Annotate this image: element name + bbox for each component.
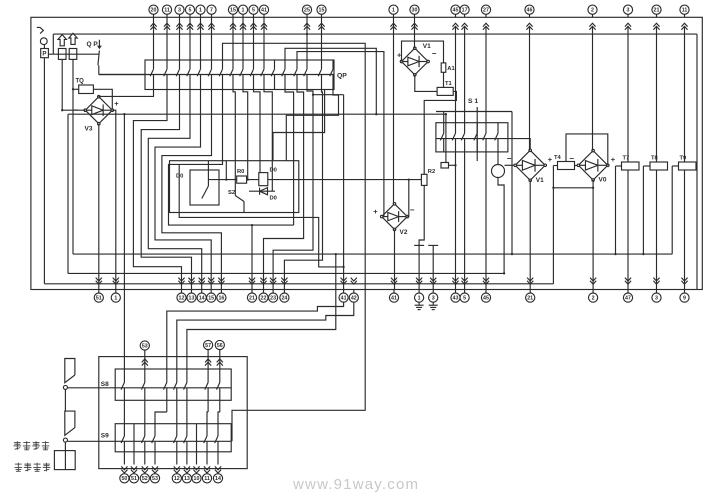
wire bus A along top (53, 33, 697, 35)
S9 contact 7 (196, 424, 198, 465)
top terminal 7 at x=211.5 (207, 5, 216, 14)
svg-text:A1: A1 (447, 66, 455, 72)
wire top terminal 2 through V0 to bottom terminal (592, 27, 594, 150)
svg-text:30: 30 (412, 8, 418, 14)
svg-text:11: 11 (204, 476, 210, 482)
wire top terminal to V1 top vertex (414, 17, 416, 48)
S1 contact 4 (476, 123, 478, 134)
top terminal 17 at x=464.6 (460, 5, 469, 14)
rectifier bridge V2 (382, 204, 408, 230)
wire QP pin drop to S2 (233, 90, 235, 196)
wire terminal 17 through S1 (464, 27, 466, 123)
disconnect switch handle (37, 27, 44, 33)
svg-text:P: P (42, 51, 46, 58)
svg-text:Q P: Q P (87, 41, 99, 48)
wire terminal to QP pin (211, 17, 213, 60)
wire right vertical v3 to terminal 23 (273, 90, 313, 290)
wire S8 drop 207 (207, 412, 208, 424)
top terminal 21 at x=656.5 (652, 5, 661, 14)
S8 contact 2 (144, 357, 146, 383)
QP aux contact 15 (306, 60, 308, 69)
wire right vertical v1 (QP pin to ring6 arm) (285, 90, 294, 226)
QP aux contact 4 (189, 60, 191, 69)
wire terminal to QP pin (232, 17, 234, 60)
QP aux contact 6 (211, 60, 213, 69)
bus N horizontal (68, 272, 504, 274)
S9 contact 5 (176, 424, 178, 436)
rectifier bridge V0 (578, 151, 607, 180)
bottom terminal 43 at x=455.5 (452, 278, 458, 285)
top terminal 15 at x=233 (228, 5, 237, 14)
relay coil D0 (259, 173, 268, 186)
wire bus Y right drop to R2b (445, 114, 447, 162)
bottom terminal 14 at x=201.7 (199, 278, 205, 285)
svg-text:27: 27 (483, 8, 489, 14)
maze ring 4 (QP pin to bottom terminal) (155, 90, 211, 290)
wire S8 drop 218 (218, 412, 220, 424)
wire P to fuses (48, 53, 98, 55)
svg-text:1: 1 (392, 8, 395, 14)
top terminal 30 at x=414.5 (410, 5, 419, 14)
svg-text:T4: T4 (554, 155, 562, 161)
svg-text:3: 3 (178, 8, 181, 14)
svg-text:1: 1 (199, 8, 202, 14)
fuse box 1 (58, 49, 66, 60)
wire V1 bottom vertex to terminal (529, 180, 531, 289)
svg-text:45: 45 (483, 296, 489, 302)
outer border frame (31, 17, 702, 289)
top terminal 27 at x=486 (481, 5, 490, 14)
svg-text:S 1: S 1 (468, 98, 478, 105)
wire terminal 27 through S1 (485, 27, 487, 123)
wire V0 right vertex loop to T4 top (566, 134, 608, 165)
wire top terminal 46 to V1 top vertex (529, 27, 531, 150)
svg-text:V1: V1 (423, 43, 431, 50)
S8 contact 6 (207, 357, 209, 383)
bottom terminal 42 at x=353.8 (351, 278, 357, 285)
QP aux contact 8 (232, 60, 234, 69)
svg-text:1: 1 (418, 296, 421, 302)
bottom terminal 3 at x=433.2 (430, 278, 436, 285)
terminal 53 above S8 (140, 341, 149, 350)
wire S8 drop 176 (176, 412, 178, 424)
svg-text:53: 53 (152, 476, 158, 482)
svg-text:1: 1 (242, 8, 245, 14)
svg-text:R2: R2 (428, 169, 435, 175)
svg-text:10: 10 (194, 476, 200, 482)
svg-text:41: 41 (341, 296, 347, 302)
bottom terminal 2 at x=593.1 (590, 278, 596, 285)
wire terminal through T7 (627, 27, 629, 162)
wire S9 entry from link A (232, 410, 247, 441)
svg-text:V0: V0 (599, 177, 607, 184)
wire terminal to QP pin (263, 17, 265, 60)
wire S8 common (67, 387, 231, 389)
S8S9 bottom terminal 51 (131, 466, 137, 473)
top terminal 15 at x=321.5 (317, 5, 326, 14)
svg-text:1: 1 (114, 296, 117, 302)
wire V1 left vertex loop to A1 (402, 41, 444, 63)
maze ring 1 (QP pin to bottom terminal) (133, 90, 181, 290)
top terminal 25 at x=307 (302, 5, 311, 14)
svg-text:S2: S2 (228, 190, 235, 196)
bottom terminal 21 at x=530.2 (527, 278, 533, 285)
switch block S8/S9 outline (99, 357, 247, 469)
QP aux contact 5 (200, 60, 202, 69)
svg-text:+: + (611, 155, 616, 164)
wire flag1 to flag2 (64, 389, 66, 411)
wire T1 right to R2 top (424, 91, 456, 174)
bottom terminal 12 at x=181.5 (178, 278, 184, 285)
wire QP contact to QP aux block (99, 74, 145, 76)
wire T4 left pin U-loop to V0 bottom and bus P (553, 165, 557, 167)
bottom terminal 23 at x=273.1 (270, 278, 276, 285)
svg-text:21: 21 (527, 296, 533, 302)
S8 contact 1 (123, 357, 125, 383)
wire terminal to QP pin (189, 17, 191, 60)
wire V3 left vertex to fuse1 drop (62, 109, 85, 111)
svg-text:2: 2 (591, 8, 594, 14)
wire right vertical v4 to terminal 24 (284, 90, 322, 290)
svg-text:+: + (373, 207, 378, 216)
S9 row box (115, 424, 231, 452)
breaker aux contact block QP (145, 60, 334, 90)
svg-text:5: 5 (252, 8, 255, 14)
position box (54, 451, 75, 470)
wire QP pin drop to relay coil D0 (254, 90, 261, 173)
wire T7 left pin to bus M (616, 165, 622, 167)
svg-text:42: 42 (351, 296, 357, 302)
QP aux contact 3 (179, 60, 181, 69)
wire top terminal to V2 and terminal 41b (393, 17, 395, 204)
QP aux contact 17 (332, 60, 334, 69)
svg-text:51: 51 (131, 476, 137, 482)
wire V3 right vertex to terminal 1 drop (112, 110, 116, 289)
svg-text:13: 13 (184, 476, 190, 482)
svg-text:D0: D0 (270, 195, 277, 201)
QP aux contact 11 (263, 60, 265, 69)
svg-text:+: + (114, 99, 119, 108)
top terminal 5 at x=190 (185, 5, 194, 14)
S1 contact 5 (485, 123, 487, 134)
maze ring 2 (QP pin to bottom terminal) (141, 90, 191, 290)
top terminal 41 at x=264 (259, 5, 268, 14)
bottom terminal 22 at x=263.5 (260, 278, 266, 285)
wire QP pin link B (285, 48, 376, 114)
svg-text:+: + (548, 155, 553, 164)
wire terminal to QP pin (242, 17, 244, 60)
bottom terminal 41 at x=394 (391, 278, 397, 285)
wire terminal to QP pin (200, 17, 202, 60)
top terminal 5 at x=253.5 (249, 5, 258, 14)
relay D0 contact box (190, 170, 219, 205)
bottom terminal 41 at x=343.6 (341, 278, 347, 285)
wire lamp to V1 bridge left vertex (505, 164, 516, 166)
position indicator flag 2 (65, 411, 75, 435)
wire maze to S8 long vertical (123, 114, 125, 356)
S9 contact 8 (206, 424, 208, 436)
wire terminal to QP pin (166, 17, 168, 60)
top terminal 3 at x=179.5 (175, 5, 184, 14)
wire terminal to QP pin (321, 17, 323, 60)
wire R2b to S1 drop (449, 164, 456, 166)
top terminal 45 at x=455.5 (451, 5, 460, 14)
wire TQ right to V3 right vertex (93, 89, 112, 110)
wire QP pin to S8 block (long link) (223, 43, 366, 410)
svg-text:V3: V3 (85, 126, 93, 133)
maze right ring B (273, 90, 325, 161)
S9 contact 9 (217, 424, 219, 436)
wire V1 bottom vertex to T1 left (415, 75, 437, 92)
S8S9 bottom terminal 10 (193, 466, 199, 473)
bottom terminal 51 at x=98.8 (96, 278, 102, 285)
bus P horizontal (44, 283, 553, 285)
top terminal 20 at x=153.5 (149, 5, 158, 14)
svg-text:15: 15 (208, 296, 214, 302)
svg-text:QP: QP (337, 73, 347, 80)
svg-text:11: 11 (682, 8, 688, 14)
svg-text:7: 7 (210, 8, 213, 14)
S1 contact 3 (464, 123, 466, 134)
wire S8 drop 186 (186, 412, 188, 424)
S9 contact 6 (186, 424, 188, 436)
resistor A1 (441, 63, 446, 72)
svg-text:9: 9 (683, 296, 686, 302)
svg-text:23: 23 (270, 296, 276, 302)
stub bar 2 and wire (428, 244, 438, 246)
QP aux contact 14 (296, 60, 298, 69)
svg-text:−: − (507, 154, 512, 163)
position indicator flag 1 (65, 359, 75, 383)
S1 top bus (436, 111, 512, 113)
svg-text:5: 5 (463, 296, 466, 302)
QP aux contact 10 (253, 60, 255, 69)
QP aux contact 12 (274, 60, 276, 69)
svg-text:−: − (410, 206, 415, 215)
S1 contact 6 (497, 123, 499, 134)
svg-text:17: 17 (462, 8, 468, 14)
wire terminal to QP pin (253, 17, 255, 60)
svg-text:T1: T1 (445, 81, 453, 87)
wire right vertical v2 to terminal 22 (264, 90, 304, 290)
svg-text:−: − (432, 49, 437, 58)
wire S8 drop 145 (144, 412, 146, 424)
QP aux contact 16 (321, 60, 323, 69)
svg-text:50: 50 (121, 476, 127, 482)
S9 contact 4 (154, 424, 156, 436)
terminal 57 above S8 (204, 340, 213, 349)
svg-text:14: 14 (199, 296, 205, 302)
wire R2 bottom to ground stub 1 (419, 185, 424, 289)
svg-text:13: 13 (189, 296, 195, 302)
wire S8 jog to 155 (155, 412, 167, 424)
wire terminal to QP pin (179, 17, 181, 60)
svg-text:TQ: TQ (76, 79, 85, 85)
QP aux contact 1 (153, 60, 155, 69)
transformer T1 (437, 87, 453, 95)
wire terminal to QP pin (153, 17, 155, 60)
wire V3 bottom vertex to terminal 51 (98, 124, 100, 290)
wire QP pin drop to diode D0 (264, 90, 272, 192)
wire relay aux vertical (225, 161, 227, 180)
maze ring 6 with long bottom arm (169, 90, 294, 226)
S8S9 bottom terminal 12 (174, 466, 180, 473)
S1 contact 1 (443, 123, 445, 134)
svg-text:57: 57 (205, 343, 211, 349)
wire P drop to bus P (43, 58, 45, 284)
S9 contact 1 (123, 424, 125, 436)
S8 contact 4 (176, 357, 178, 383)
wire terminal through T9 (684, 27, 686, 162)
QP aux contact 9 (242, 60, 244, 69)
wire S8 drop 124 (123, 412, 125, 424)
svg-text:12: 12 (174, 476, 180, 482)
wire S2 feed arm to terminal 41 (179, 164, 343, 267)
wire T4 right pin to V0 left vertex (575, 165, 579, 167)
wire QP pin link C to V2 (297, 52, 384, 217)
QP aux contact 7 (222, 60, 224, 69)
wire flag2 to position box (64, 442, 66, 451)
wire V2 right vertex to bus C dot (407, 180, 409, 217)
S8S9 bottom terminal 53 (152, 466, 158, 473)
svg-text:16: 16 (218, 296, 224, 302)
wire QP pin drop to bus C (243, 90, 248, 180)
svg-text:21: 21 (249, 296, 255, 302)
svg-text:46: 46 (527, 8, 533, 14)
rectifier bridge V1 (top) (402, 48, 429, 75)
bus M horizontal (73, 253, 672, 255)
svg-text:S8: S8 (101, 381, 109, 388)
S8 contact 3 (166, 357, 168, 383)
top terminal 46 at x=529.5 (525, 5, 534, 14)
close-command arrow (he) (58, 35, 66, 46)
svg-text:T9: T9 (680, 156, 688, 162)
maze ring 3 (QP pin to bottom terminal) (148, 90, 201, 290)
svg-text:V1: V1 (536, 177, 544, 184)
svg-text:43: 43 (453, 296, 459, 302)
terminal 56 above S8 (215, 340, 224, 349)
ground symbol at terminal 1 (418, 302, 420, 305)
svg-text:22: 22 (261, 296, 267, 302)
signal lamp (497, 152, 499, 165)
S8S9 bottom terminal 13 (184, 466, 190, 473)
top terminal 1 at x=243 (238, 5, 247, 14)
relay D0 contact (207, 161, 209, 186)
svg-text:41: 41 (261, 8, 267, 14)
S9 contact 3 (144, 424, 146, 436)
ground symbol at terminal 3 (432, 302, 434, 305)
bottom terminal 16 at x=221.4 (218, 278, 224, 285)
svg-text:5: 5 (189, 8, 192, 14)
svg-text:S9: S9 (101, 432, 109, 439)
bottom terminal 9 at x=684.5 (681, 278, 687, 285)
svg-text:D0: D0 (176, 174, 183, 180)
svg-text:24: 24 (281, 296, 287, 302)
wire terminal 41 to S8 contact (W1) (167, 302, 344, 356)
svg-text:47: 47 (625, 296, 631, 302)
wire bus Y left drop (67, 114, 69, 273)
svg-text:3: 3 (627, 8, 630, 14)
wire ring6 arm drop to terminal 21 (251, 225, 253, 289)
bottom terminal 21 at x=252 (249, 278, 255, 285)
QP aux contact 2 (166, 60, 168, 69)
svg-text:15: 15 (230, 8, 236, 14)
S8S9 bottom terminal 52 (142, 466, 148, 473)
wire TQ left to fuse 2 drop (73, 88, 79, 90)
S8 contact 7 (219, 357, 221, 383)
S9 contact 2 (133, 424, 135, 465)
wire terminal through T8 (656, 27, 658, 162)
wire lamp to bus N (498, 178, 504, 274)
top terminal 1 at x=200.5 (196, 5, 205, 14)
bottom terminal 45 at x=486 (483, 278, 489, 285)
wire terminal 42 to S8 contact (W2) (177, 302, 354, 356)
label test position (hanzi) (14, 442, 21, 444)
bottom terminal 1 at x=115.8 (113, 278, 119, 285)
bus C through R0 and D0 coil (208, 179, 421, 181)
open-command arrow (fen) (69, 33, 77, 44)
maze right ring A (286, 90, 338, 161)
label work position (hanzi) (15, 463, 22, 465)
svg-text:51: 51 (96, 296, 102, 302)
top terminal 1 at x=393.5 (389, 5, 398, 14)
stub bar 1 (414, 244, 424, 246)
svg-text:14: 14 (215, 476, 221, 482)
maze ring 5 (QP pin to bottom terminal) (162, 90, 222, 290)
top terminal 11 at x=167 (162, 5, 171, 14)
top terminal 2 at x=592.5 (588, 5, 597, 14)
wire terminal to QP pin (306, 17, 308, 60)
svg-text:www.91way.com: www.91way.com (292, 476, 419, 493)
bottom terminal 3 at x=656.5 (653, 278, 659, 285)
bottom terminal 13 at x=191.5 (188, 278, 194, 285)
wire T9 left pin to bus M (672, 165, 678, 167)
fuse box 2 (69, 49, 77, 60)
resistor R2b (441, 163, 449, 169)
bottom terminal 15 at x=211.2 (208, 278, 214, 285)
wire terminal 45 through S1 (455, 27, 457, 123)
wire V3 top vertex to QP pin 1 (99, 90, 154, 97)
svg-text:21: 21 (654, 8, 660, 14)
top terminal 11 at x=684.5 (680, 5, 689, 14)
svg-text:3: 3 (655, 296, 658, 302)
bottom terminal 47 at x=628 (625, 278, 631, 285)
svg-text:11: 11 (164, 8, 170, 14)
relay block outline (170, 161, 299, 213)
wire T8 left pin to bus M (643, 165, 650, 167)
diode D0 (249, 190, 275, 192)
svg-text:2: 2 (592, 296, 595, 302)
S8S9 bottom terminal 14 (215, 466, 221, 473)
wire fuse2 drop to bus M (72, 59, 74, 254)
QP common bus (99, 74, 334, 76)
S8S9 bottom terminal 50 (121, 466, 127, 473)
bottom terminal 1 at x=419.1 (416, 278, 422, 285)
S1 actuator line (476, 107, 478, 161)
svg-text:12: 12 (179, 296, 185, 302)
S8S9 bottom terminal 11 (204, 466, 210, 473)
svg-text:−: − (569, 154, 574, 163)
wire fuse1 drop to V3 (61, 59, 63, 110)
rectifier bridge V3 (85, 97, 112, 124)
S1 contact 2 (455, 123, 457, 134)
bus Y horizontal y=114 (68, 113, 446, 115)
S8 row box (115, 369, 231, 400)
svg-text:53: 53 (142, 343, 148, 349)
svg-text:R0: R0 (237, 169, 244, 175)
svg-text:20: 20 (151, 8, 157, 14)
rectifier bridge V1 (right) (515, 150, 545, 180)
